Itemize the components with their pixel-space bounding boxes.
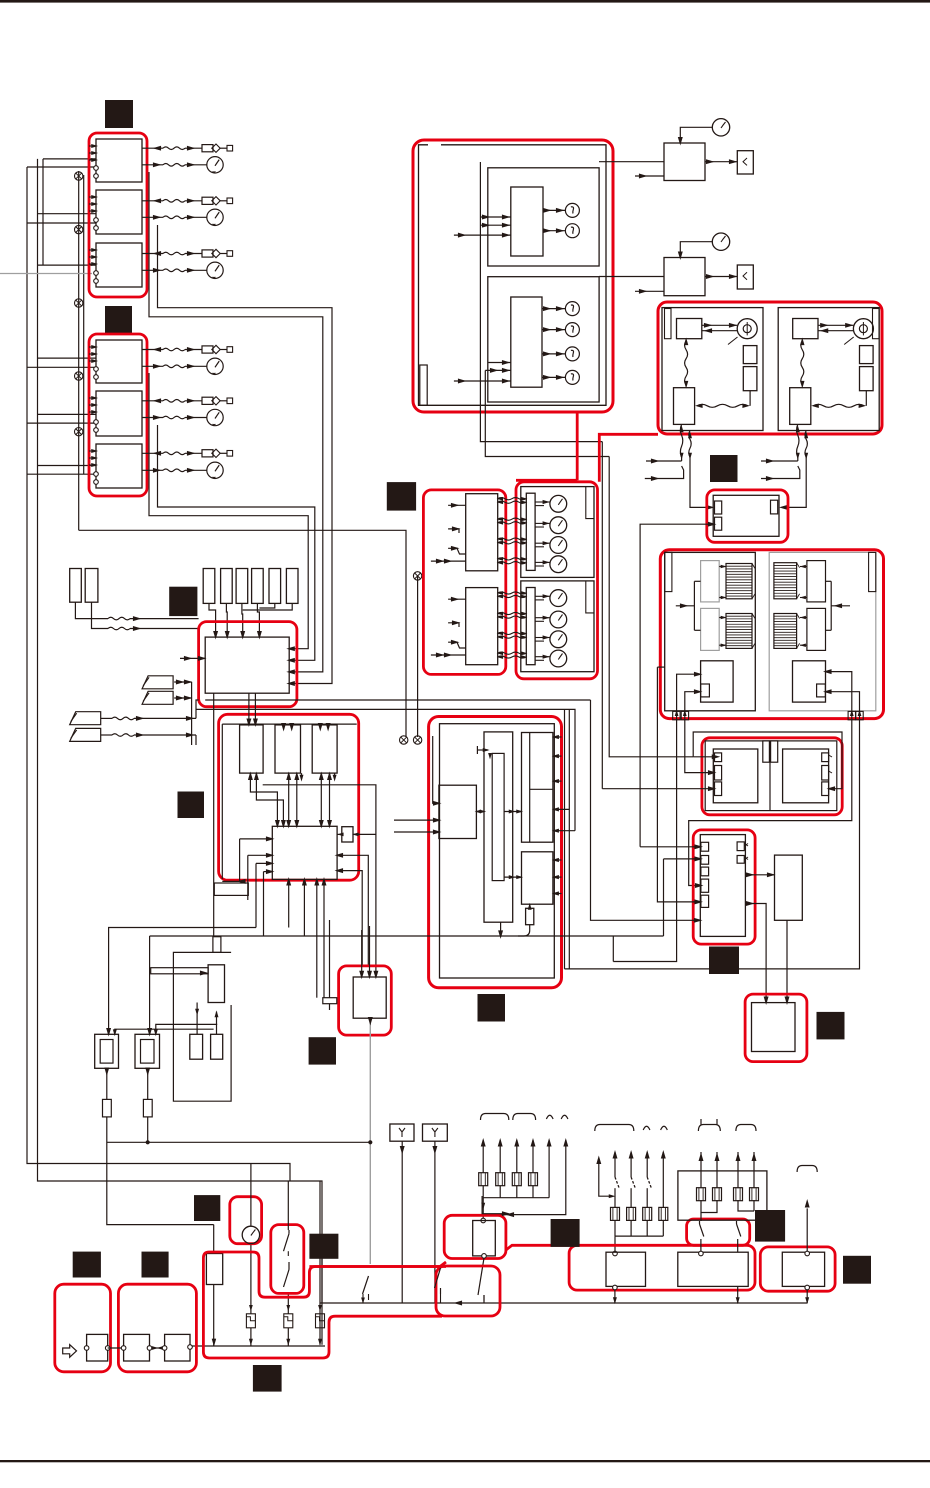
wire P drop bbox=[191, 682, 193, 745]
bus tick switch1 bbox=[363, 1276, 369, 1294]
page bottom rule bbox=[0, 1460, 930, 1462]
wire IG feed bbox=[287, 1181, 289, 1230]
ac amplifier case bbox=[440, 724, 555, 978]
fuse C2 bbox=[713, 1188, 722, 1201]
control module K body bbox=[752, 1003, 796, 1052]
indicator lamp L1 bbox=[565, 203, 579, 217]
flasher relay body bbox=[473, 1221, 496, 1256]
label block (redacted) A18 bbox=[387, 482, 416, 511]
wire bus feed B3a bbox=[38, 264, 97, 266]
wire ac inner link3 bbox=[504, 876, 521, 878]
ac amp right box lower bbox=[522, 852, 553, 904]
wire hvac right feed bbox=[831, 605, 850, 607]
flasher relay highlight bbox=[444, 1215, 506, 1258]
lamp unit 2 bbox=[135, 1034, 160, 1068]
cluster sub-panel 1 bbox=[488, 168, 599, 266]
hvac right tab bbox=[869, 552, 876, 591]
terminal right a bbox=[848, 711, 855, 719]
wire hvac left return bbox=[613, 718, 676, 962]
cluster outer case bbox=[419, 145, 607, 406]
sensor unit D2 bbox=[664, 258, 705, 296]
wire ecu group cross bbox=[263, 785, 376, 977]
main harness highlight path A bbox=[209, 1252, 446, 1297]
wire amp2 to blower 8 bbox=[498, 656, 526, 658]
label block (redacted) A8 bbox=[309, 1037, 336, 1064]
ecu highlight bbox=[199, 622, 297, 707]
wire bus to driver2 bbox=[281, 723, 286, 732]
wire fuse group A 4 bbox=[532, 1140, 534, 1149]
wire switch group B 1 bbox=[614, 1152, 616, 1161]
sensor unit D1 bbox=[664, 143, 705, 181]
coil leg 2 bbox=[287, 1293, 289, 1313]
wire A13 drop bbox=[321, 1259, 323, 1303]
wire loop into pin I-L1 bbox=[693, 732, 842, 789]
wire relay group2 output pair bbox=[149, 373, 308, 649]
pin J-R1 bbox=[737, 842, 744, 851]
wire fuse C1 tail bbox=[701, 1200, 717, 1212]
wire Y1 down bbox=[401, 1141, 403, 1303]
ac amp inner narrow box bbox=[492, 753, 504, 880]
wire core link right bbox=[800, 617, 807, 619]
wire bus feed B5a bbox=[38, 413, 97, 415]
blower motor unit right tab bbox=[817, 684, 826, 697]
indicator lamp L5 bbox=[565, 347, 579, 361]
ignition switch highlight bbox=[271, 1225, 304, 1294]
label block (redacted) A2 bbox=[105, 306, 132, 333]
wire bus feed B1b bbox=[27, 166, 96, 168]
wire ecu left in 4 bbox=[264, 871, 273, 873]
sensor rect S1 bbox=[70, 569, 82, 603]
antenna motor module highlight bbox=[55, 1284, 111, 1372]
highlight wire cluster to blower control bbox=[576, 412, 579, 480]
highlight band upper bbox=[309, 1262, 446, 1267]
fuse A3 bbox=[512, 1173, 521, 1186]
wire lamp link 2 bbox=[156, 1024, 217, 1034]
indicator driver 1 bbox=[511, 187, 543, 256]
main harness highlight path B bbox=[203, 1252, 442, 1358]
wire fuse group C 1 bbox=[700, 1152, 702, 1188]
wire blower feed stub bbox=[657, 666, 664, 668]
wire fan right coil vertical bbox=[801, 341, 804, 385]
junction left half bbox=[713, 749, 758, 803]
wire radio out bbox=[189, 1346, 191, 1348]
fan motor left bbox=[737, 319, 757, 339]
servo left 1 bbox=[701, 561, 720, 602]
wire fan feed stub L2 bbox=[645, 466, 684, 479]
wire D2 to T2 bbox=[680, 242, 712, 258]
connector arc c3 bbox=[797, 1166, 817, 1173]
wire fuse group A 5 bbox=[548, 1140, 550, 1149]
wire amp1 in1 bbox=[448, 504, 466, 506]
junction connector highlight bbox=[702, 738, 842, 815]
wire bus feed B2b bbox=[27, 222, 96, 224]
relay group 1 highlight bbox=[89, 133, 147, 297]
wire switch group B 4 bbox=[662, 1152, 664, 1161]
wire fuse C3 tail bbox=[738, 1200, 754, 1211]
fuse box case bbox=[678, 1171, 767, 1220]
wire Y2 down bbox=[434, 1141, 436, 1280]
door switch bbox=[435, 1268, 441, 1288]
wire lamp feed 2 bbox=[149, 936, 151, 1034]
wire core link right bbox=[800, 644, 807, 646]
servo left 2 bbox=[701, 608, 720, 650]
wire into tall box top bbox=[482, 1196, 508, 1214]
wire R3 top bbox=[806, 1208, 808, 1252]
ground symbol G8 bbox=[413, 572, 421, 580]
wire D1 stub bbox=[635, 175, 664, 177]
wire ecu drop 2 bbox=[254, 693, 256, 725]
wire amp2 in2 bbox=[448, 623, 459, 627]
connector arc b3 bbox=[661, 1126, 668, 1130]
label block (redacted) A7 bbox=[169, 587, 197, 616]
switch S-a bbox=[699, 1221, 701, 1224]
blower motor 1-1 bbox=[550, 495, 567, 512]
wire lamp2 down bbox=[147, 1068, 149, 1099]
indicator lamp L4 bbox=[565, 323, 579, 337]
indicator lamp L6 bbox=[565, 370, 579, 384]
antenna frame bbox=[173, 952, 231, 1101]
label block (redacted) A6 bbox=[478, 994, 506, 1022]
highlight band wrap exit bbox=[506, 1245, 569, 1250]
wire amp2 to blower 4 bbox=[498, 616, 526, 618]
blower case 1 bbox=[521, 487, 594, 578]
wire amp1 in2 bbox=[448, 529, 459, 533]
switch B1 bbox=[614, 1161, 616, 1177]
wire amp1 to blower 7 bbox=[498, 558, 526, 560]
wire ecu left drop bbox=[213, 693, 215, 937]
battery box Y1 bbox=[390, 1124, 414, 1141]
wire ecu bottom 4 bbox=[323, 879, 325, 997]
relay K5 bbox=[96, 391, 142, 436]
blower motor 1-3 bbox=[550, 537, 567, 554]
relay module K2 body bbox=[353, 977, 386, 1018]
relay box R-2 bbox=[678, 1252, 748, 1286]
blower motor 1-2 bbox=[550, 517, 567, 534]
wire fan left down 2 bbox=[689, 431, 691, 457]
control module K highlight bbox=[745, 994, 807, 1062]
wire v569 bbox=[568, 709, 570, 969]
fuse B1 bbox=[611, 1207, 620, 1220]
blower motor 2-4 bbox=[550, 650, 567, 667]
ground symbol G5 bbox=[75, 428, 83, 436]
wire bus to driver3 bbox=[318, 723, 323, 732]
wire ecu right out 1 bbox=[337, 855, 368, 966]
resistor fan right 1 bbox=[860, 346, 874, 364]
radio box 2 bbox=[165, 1334, 190, 1361]
blower motor unit left tab bbox=[701, 684, 710, 697]
switch IG-a bbox=[288, 1230, 290, 1234]
wire into pin I-L3 bbox=[602, 788, 714, 790]
wire ac left in1 bbox=[433, 736, 439, 803]
fuse B4 bbox=[659, 1207, 668, 1220]
wire fan feed stub L1 bbox=[646, 460, 682, 462]
page top rule bbox=[0, 0, 930, 3]
wire radio link1 bbox=[108, 1347, 124, 1349]
switch S-b bbox=[736, 1221, 738, 1224]
wire ecu bottom 2 bbox=[303, 879, 305, 936]
wire to J L2 bbox=[663, 859, 665, 936]
pin I-R2 bbox=[822, 766, 829, 781]
ground bus upper bbox=[320, 1302, 807, 1304]
connector arc c1 bbox=[698, 1125, 720, 1132]
wire aux link bbox=[337, 833, 342, 835]
cluster notch bbox=[420, 365, 427, 405]
wire h936 long bbox=[150, 935, 664, 937]
wire cluster2 in1 bbox=[489, 362, 511, 364]
ac amp left block bbox=[439, 785, 477, 838]
wire ground chain to distribution bbox=[79, 530, 406, 737]
heater core right 2 bbox=[774, 614, 797, 649]
wire switch group B 3 bbox=[646, 1152, 648, 1161]
main ecu body bbox=[272, 826, 337, 879]
wire K2 in1 bbox=[361, 930, 363, 977]
wire radio bus bbox=[212, 1339, 216, 1346]
pin J-L1 bbox=[701, 842, 709, 851]
wire resistor drops bbox=[209, 603, 216, 637]
wire P4 link bbox=[101, 734, 112, 736]
ac amp inner tall box bbox=[484, 732, 513, 922]
wire clock feed bbox=[250, 1164, 252, 1227]
wire fan feed stub R2 bbox=[761, 466, 800, 479]
hvac unit highlight bbox=[660, 550, 883, 719]
wire P3 riser bbox=[196, 700, 199, 718]
fuse B3 bbox=[643, 1207, 652, 1220]
wire core link left bbox=[719, 566, 726, 568]
wire amp2 in1 bbox=[448, 598, 466, 600]
fuse A4 bbox=[529, 1173, 538, 1186]
wire A bus down bbox=[482, 1198, 484, 1221]
wire core link left bbox=[719, 617, 726, 619]
indicator lamp L2 bbox=[565, 224, 579, 238]
wire ecu bottom 3 bbox=[316, 879, 318, 997]
junction right half bbox=[783, 749, 829, 803]
blower motor unit left bbox=[701, 661, 734, 702]
wire ecu left in 1 bbox=[240, 838, 273, 840]
wire ac top T bbox=[477, 749, 488, 751]
connector arc b2 bbox=[643, 1126, 650, 1130]
wire fuse bus A bbox=[483, 1197, 549, 1199]
switch sensor P2 bbox=[142, 691, 173, 704]
relay K4 bbox=[96, 340, 142, 383]
wire amp1 to blower 8 bbox=[498, 562, 526, 564]
thermo sensor T2 bbox=[712, 233, 729, 250]
clock face bbox=[242, 1226, 259, 1243]
relay box R-3 bbox=[782, 1252, 824, 1286]
wire cluster1 in2 bbox=[480, 224, 510, 226]
wire amp down bbox=[786, 920, 788, 1002]
coil leg 1 bbox=[250, 1244, 252, 1314]
wire lamp1 tail bbox=[107, 1117, 214, 1225]
battery box Y2 bbox=[423, 1124, 448, 1141]
switch sensor P4 bbox=[70, 728, 101, 741]
ground bus lower bbox=[190, 1345, 325, 1347]
wire fuse group C 4 bbox=[753, 1152, 755, 1188]
antenna mast bbox=[213, 937, 221, 953]
hvac right case bbox=[769, 552, 876, 710]
wire P4 riser bbox=[195, 735, 197, 745]
wire D2 out bbox=[705, 276, 737, 278]
pin I-R1 bbox=[822, 753, 829, 762]
pin I-L2 bbox=[715, 766, 722, 781]
relay module K2 highlight bbox=[339, 966, 392, 1035]
wire bus feed B2a bbox=[38, 213, 97, 215]
door switch highlight bbox=[436, 1266, 500, 1316]
pin F-2 bbox=[715, 517, 722, 530]
relay K2 bbox=[96, 190, 142, 234]
drive arrow glyph bbox=[63, 1345, 77, 1358]
wire ecu in left bbox=[180, 657, 205, 659]
radio box 1 bbox=[124, 1334, 150, 1361]
wire ecu drop 1 bbox=[248, 693, 250, 725]
blower amplifier 2 bbox=[466, 588, 498, 665]
heater core left 2 bbox=[726, 614, 752, 649]
pin I-R3 bbox=[822, 782, 829, 796]
resistor ac bbox=[526, 908, 534, 924]
wire T1 feed bbox=[213, 1225, 215, 1254]
blower connector strip 1 bbox=[526, 493, 535, 570]
wire K2 in2 bbox=[369, 926, 371, 977]
label block (redacted) A17 bbox=[843, 1256, 871, 1284]
wire fuse group C 3 bbox=[737, 1152, 739, 1188]
wire core link right bbox=[800, 566, 807, 568]
wire lamp2 tail bbox=[147, 1117, 149, 1142]
cluster sub-panel 2 bbox=[488, 277, 599, 402]
switch sensor P1 bbox=[142, 676, 173, 689]
wire left bus 3 bbox=[42, 159, 44, 265]
antenna cable bbox=[151, 968, 208, 974]
label block (redacted) A1 bbox=[105, 100, 133, 128]
ac amplifier highlight bbox=[429, 717, 562, 988]
wire cluster2 in3 bbox=[454, 380, 511, 382]
pin F-1 bbox=[715, 501, 722, 514]
wire hvac left feed bbox=[676, 605, 695, 607]
wire left bus 2 bbox=[38, 159, 323, 1345]
wire fan left down 1 bbox=[680, 424, 682, 457]
wire driver2 pair bbox=[288, 773, 290, 826]
heater core left 1 bbox=[726, 564, 752, 599]
ground symbol G1 bbox=[75, 172, 83, 180]
diode block fan right bbox=[790, 388, 811, 425]
pin I-L3 bbox=[715, 782, 722, 796]
instrument cluster highlight bbox=[413, 140, 613, 412]
wire fuse group A 6 bbox=[565, 1140, 567, 1149]
wire ac amp bottom bbox=[500, 922, 502, 936]
terminal right b bbox=[856, 711, 863, 719]
wire fuse group A 3 bbox=[516, 1140, 518, 1149]
wire ac right in rows bbox=[553, 736, 562, 738]
label block (redacted) A10 bbox=[194, 1195, 220, 1221]
ground symbol G2 bbox=[75, 225, 83, 233]
blower amplifier 1 bbox=[466, 494, 498, 571]
wire core link left bbox=[719, 597, 726, 599]
wire amp2 to blower 6 bbox=[498, 636, 526, 638]
wire bus feed B4b bbox=[27, 366, 96, 368]
wire fan right down 1 bbox=[797, 424, 799, 457]
wire ecu left in 2 bbox=[248, 854, 272, 856]
driver box 2 bbox=[275, 725, 301, 773]
radio unit highlight bbox=[118, 1284, 196, 1372]
label block (redacted) A15 bbox=[551, 1219, 580, 1247]
blower motor 1-4 bbox=[550, 556, 567, 573]
wire amp2 in4 bbox=[431, 654, 466, 656]
wire fan feed stub R1 bbox=[761, 460, 798, 462]
switch B3 bbox=[646, 1161, 648, 1177]
choke 2 bbox=[211, 1034, 223, 1059]
heater core right 1 bbox=[774, 563, 797, 599]
wire fan right resistor link bbox=[865, 391, 867, 406]
wire servo link right bbox=[830, 581, 832, 630]
wire servo link left bbox=[693, 581, 695, 630]
fuse C4 bbox=[750, 1188, 759, 1201]
wire long drop A bbox=[480, 162, 602, 442]
wire amp2 in3 bbox=[448, 642, 466, 648]
fuse B2 bbox=[627, 1207, 636, 1220]
resistor pack row bbox=[203, 569, 215, 604]
wire v590 bbox=[591, 700, 701, 920]
wire blower right 1 bbox=[826, 672, 852, 718]
wire spur x417 bbox=[417, 576, 419, 737]
diode block fan left bbox=[674, 388, 695, 425]
fuse C3 bbox=[734, 1188, 743, 1201]
wire long h709 bbox=[196, 709, 575, 830]
driver box 3 bbox=[312, 725, 337, 773]
fan unit right tab bbox=[873, 309, 880, 339]
wire driver3 pair bbox=[320, 773, 322, 826]
junction center tab 2 bbox=[771, 741, 778, 762]
wire ground chain bbox=[78, 171, 80, 530]
switch pair highlight bbox=[687, 1219, 750, 1245]
blower amplifier highlight bbox=[423, 490, 505, 675]
wire blower left 1 bbox=[677, 674, 701, 718]
connector arc a1 bbox=[481, 1114, 509, 1121]
wire amp1 in3 bbox=[448, 548, 466, 554]
wire S2 feed bbox=[92, 602, 109, 628]
connector arc a4 bbox=[561, 1115, 568, 1119]
relay K6 bbox=[96, 444, 142, 488]
wire ac left in3 bbox=[394, 831, 439, 833]
resistor fan left 1 bbox=[743, 346, 757, 364]
ground symbol G6 bbox=[400, 736, 408, 744]
wire amp1 to blower 2 bbox=[498, 501, 526, 503]
wire blower left 2 bbox=[685, 692, 701, 718]
blower motor 2-3 bbox=[550, 631, 567, 648]
wire into pin J-L4 lower bbox=[657, 667, 701, 902]
relay box R-1 bbox=[606, 1252, 646, 1286]
relay block J highlight bbox=[693, 830, 755, 944]
wire antenna out1 bbox=[196, 1003, 198, 1035]
connector arc c2 bbox=[736, 1125, 756, 1132]
wire Y2 to bus bbox=[434, 1280, 436, 1303]
antenna motor box bbox=[87, 1334, 108, 1361]
wire A6 route bbox=[483, 1149, 566, 1215]
servo right 2 bbox=[807, 608, 826, 650]
wire amp2 to blower 3 bbox=[498, 612, 526, 614]
switch B2 bbox=[630, 1161, 632, 1177]
pin I-L1 bbox=[715, 753, 722, 762]
thermo sensor T1 bbox=[712, 119, 729, 136]
wire amp1 to blower 4 bbox=[498, 522, 526, 524]
fuse A1 bbox=[479, 1173, 488, 1186]
wire amp1 to blower 3 bbox=[498, 518, 526, 520]
wire J out upper bbox=[745, 874, 774, 876]
terminal left b bbox=[681, 711, 688, 719]
choke 1 bbox=[190, 1034, 203, 1059]
junction connector case bbox=[705, 741, 837, 811]
fan motor right bbox=[853, 319, 873, 339]
condenser fan pair highlight bbox=[658, 302, 882, 434]
wire ecu bottom 1 bbox=[288, 879, 290, 927]
wire amp2 to blower 1 bbox=[498, 592, 526, 594]
